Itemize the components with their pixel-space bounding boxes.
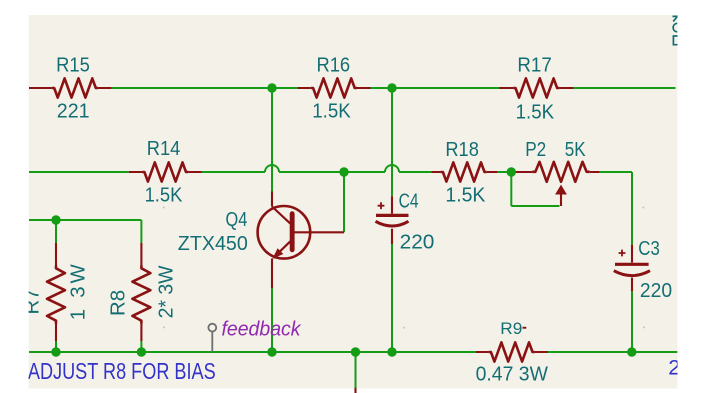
svg-text:1 3W: 1 3W [68,264,90,321]
svg-text:R16: R16 [316,54,350,76]
svg-text:C4: C4 [399,191,419,213]
svg-text:Q4: Q4 [226,209,248,231]
svg-text:ADJUST R8 FOR BIAS: ADJUST R8 FOR BIAS [28,358,216,384]
svg-text:1.5K: 1.5K [145,185,183,207]
svg-text:P2: P2 [525,139,546,161]
svg-text:1.5K: 1.5K [445,184,485,206]
svg-text:R8: R8 [108,290,130,316]
svg-text:R14: R14 [147,138,181,160]
svg-text:2* 3W: 2* 3W [156,265,178,319]
svg-text:R9: R9 [500,319,522,338]
svg-text:1.5K: 1.5K [516,101,555,123]
svg-text:R18: R18 [445,139,479,161]
svg-text:220: 220 [640,280,672,302]
svg-text:221: 221 [57,100,90,122]
svg-text:R17: R17 [517,54,551,76]
svg-text:220: 220 [400,232,435,254]
svg-text:C3: C3 [638,238,660,260]
svg-text:R15: R15 [56,54,90,76]
svg-text:0.47 3W: 0.47 3W [476,364,549,386]
svg-text:5K: 5K [565,139,586,161]
svg-text:1.5K: 1.5K [312,100,351,122]
svg-text:feedback: feedback [222,317,303,340]
svg-text:ZTX450: ZTX450 [178,233,248,255]
